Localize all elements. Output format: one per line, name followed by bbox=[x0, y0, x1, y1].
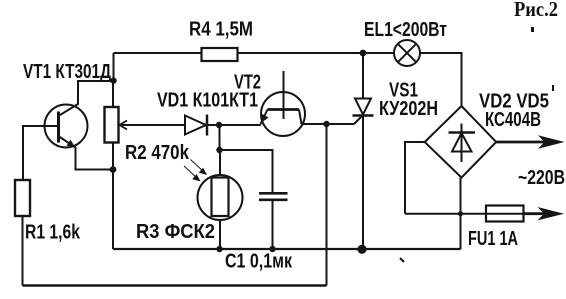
wire R2 bottom lead down to lower wire bbox=[112, 143, 114, 250]
node gate bbox=[323, 121, 329, 127]
node VD1/VT2/R3 bbox=[216, 122, 222, 128]
arrow mains output upper bbox=[496, 135, 564, 148]
node top rail / VS1 anode bbox=[360, 50, 367, 57]
svg-text:~220В: ~220В bbox=[518, 167, 565, 189]
wire bridge left corner to fuse wire bbox=[405, 142, 425, 214]
node VS1 cathode big bbox=[357, 245, 366, 254]
wire VS1 junction to lamp bbox=[363, 52, 394, 54]
svg-text:EL1<200Вт: EL1<200Вт bbox=[364, 19, 447, 41]
svg-text:VD1 К101КТ1: VD1 К101КТ1 bbox=[157, 90, 258, 112]
node junction dots bbox=[110, 50, 464, 254]
capacitor C1 bbox=[259, 193, 288, 200]
wire gate node down to bottom rail bbox=[326, 124, 328, 286]
fuse FU1 bbox=[486, 206, 524, 222]
wire VT1 emitter bbox=[59, 137, 113, 170]
resistor R4 bbox=[202, 48, 238, 61]
wire fuse line bbox=[405, 213, 548, 215]
wire R2 top lead bbox=[112, 81, 114, 107]
wire VT1 base bbox=[23, 126, 59, 180]
wire VS1 anode bbox=[362, 53, 364, 99]
wire C1 top branch bbox=[220, 150, 273, 193]
node R3/C1 bbox=[216, 147, 222, 153]
R2 wiper arrow bbox=[120, 121, 128, 130]
svg-text:КУ202Н: КУ202Н bbox=[379, 98, 438, 120]
svg-text:R3 ФСК2: R3 ФСК2 bbox=[136, 221, 215, 243]
svg-text:R1 1,6k: R1 1,6k bbox=[25, 222, 81, 244]
transistor VT1 bbox=[45, 105, 88, 148]
wire collector branch vertical bbox=[113, 53, 115, 81]
speck marks bbox=[400, 27, 554, 262]
svg-text:R2 470k: R2 470k bbox=[125, 142, 190, 164]
wire top rail from VT1 branch to VS1 junction bbox=[114, 52, 364, 54]
wire VD1 cathode to VT2 emitter bbox=[207, 124, 261, 126]
lamp EL1 bbox=[394, 40, 420, 66]
wire R1 bottom lead bbox=[22, 216, 24, 286]
node collector branch bbox=[110, 77, 116, 83]
wire bridge bottom corner down bbox=[460, 178, 462, 250]
wire VT2 collector to gate node bbox=[302, 123, 355, 125]
svg-text:R4 1,5M: R4 1,5M bbox=[189, 19, 253, 41]
wire VS1 cathode bbox=[362, 116, 364, 250]
resistor R1 bbox=[15, 180, 30, 216]
wire R3 top lead bbox=[219, 150, 221, 176]
wire node A vertical to R3 top bbox=[219, 125, 221, 150]
thyristor VS1 bbox=[353, 99, 374, 116]
svg-text:VT1 КТ301Д: VT1 КТ301Д bbox=[23, 61, 111, 83]
wire C1 bottom lead bbox=[272, 200, 274, 250]
node C1 bottom bbox=[269, 246, 275, 252]
svg-text:КС404В: КС404В bbox=[485, 109, 541, 131]
svg-text:FU1 1А: FU1 1А bbox=[468, 228, 518, 250]
wire VS1 gate diagonal bbox=[354, 115, 363, 124]
wire R3 bottom lead bbox=[219, 219, 221, 249]
diode VD1 bbox=[185, 115, 207, 136]
wire lamp to bridge top corner bbox=[420, 53, 462, 106]
resistor R2 (variable) bbox=[105, 107, 119, 143]
node fuse wire crossing bbox=[458, 211, 463, 216]
wire R2 wiper to VD1 bbox=[120, 124, 185, 126]
svg-text:Рис.2: Рис.2 bbox=[514, 0, 558, 21]
arrow mains output lower bbox=[524, 207, 565, 220]
bridge rectifier VD2-VD5 bbox=[425, 106, 497, 178]
wire bottom rail bbox=[23, 284, 327, 287]
wire lower rail y249 bbox=[113, 248, 461, 250]
wire VT1 collector bbox=[60, 81, 114, 115]
svg-text:С1 0,1мк: С1 0,1мк bbox=[225, 251, 293, 273]
node R3 bottom bbox=[216, 246, 222, 252]
node emitter/R2 bbox=[110, 166, 117, 173]
transistor VT2 bbox=[261, 71, 306, 136]
photoresistor R3 bbox=[184, 160, 243, 221]
